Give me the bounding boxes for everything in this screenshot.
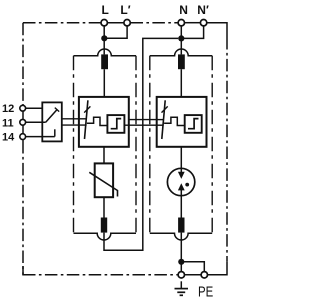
module 1 outline top with plug contact arc	[74, 49, 137, 56]
U1 disconnect electrode tick	[84, 106, 90, 112]
enclosure border bottom dash-dot	[23, 274, 178, 276]
GDT1 trigger dot	[185, 183, 189, 187]
svg-text:14: 14	[2, 132, 15, 144]
enclosure border left side solid at signal terminals	[22, 104, 24, 141]
module 2 outline bottom with plug contact arc	[150, 233, 212, 240]
wire U2 to gas discharge tube GDT1	[180, 147, 182, 172]
gas discharge tube GDT1 circle	[167, 168, 194, 195]
U2 disconnect electrode slant line	[162, 100, 165, 139]
remote signalling wire 14	[26, 136, 55, 138]
GDT1 upper arrow (down)	[178, 172, 185, 179]
ground symbol bar 1	[175, 288, 189, 290]
changeover switch K1 blade	[46, 110, 57, 123]
changeover switch K1 box	[42, 102, 62, 141]
wire between PE terminals	[185, 274, 202, 276]
GDT1 lower arrow shaft	[180, 190, 182, 196]
U1 trigger pulse waveform	[87, 117, 108, 125]
svg-text:11: 11	[2, 117, 14, 129]
wire L terminal down through top contact to disconnector	[103, 26, 105, 55]
svg-text:12: 12	[2, 103, 14, 115]
spark gap unit U1 box	[79, 97, 129, 147]
varistor RV1 diagonal stroke	[89, 172, 117, 196]
node N junction dot	[178, 35, 184, 41]
trigger rail lower between units	[124, 124, 156, 126]
module 2 outline top with plug contact arc	[150, 49, 212, 56]
wire node PE branch to PE' terminal	[181, 262, 204, 272]
terminal N	[178, 20, 184, 26]
module 1 outline bottom with plug contact arc	[74, 233, 137, 240]
wire fuse F1 to spark gap unit U1	[103, 69, 105, 97]
trigger rail lower from switch to unit U1	[62, 124, 87, 126]
enclosure border left side dash-dot	[22, 23, 24, 104]
wire N' loop-through to right border corner	[207, 23, 227, 37]
thermal disconnector fuse F2 (filled)	[178, 54, 185, 69]
svg-text:L′: L′	[120, 3, 130, 17]
wire varistor RV1 to fuse F3	[103, 197, 105, 217]
module 1 outline left dash-dot	[73, 56, 75, 233]
wire N module output through bottom contact to node PE	[180, 233, 182, 272]
enclosure border left side dash-dot lower	[22, 141, 24, 275]
wire right border bottom corner to PE' terminal	[208, 262, 228, 275]
thermal disconnector fuse F4 (filled)	[178, 218, 184, 233]
terminal 14	[20, 134, 26, 140]
wire GDT1 to fuse F4	[180, 196, 182, 218]
terminal 11	[20, 119, 26, 125]
GDT1 lower arrow (up)	[178, 183, 185, 190]
wire between L and L' terminals	[107, 22, 124, 24]
terminal N'	[200, 20, 206, 26]
changeover switch K1 blade tip tick	[55, 108, 59, 112]
trigger rail upper stub into unit U2	[157, 119, 164, 121]
terminal L	[101, 20, 107, 26]
spark gap unit U2 box	[157, 97, 207, 147]
terminal PE ground side	[178, 272, 184, 278]
wire U1 to varistor RV1	[103, 147, 105, 164]
changeover switch K1 fixed contact 14 stub	[54, 129, 56, 136]
ground symbol stem	[180, 281, 182, 288]
enclosure border right side dash-dot	[226, 37, 228, 262]
trigger rail upper between units	[129, 119, 157, 121]
wire N terminal down through top contact	[180, 26, 182, 55]
ground symbol bar 2	[177, 291, 185, 293]
U2 disconnect electrode tick	[162, 106, 168, 112]
svg-text:N: N	[179, 3, 188, 17]
enclosure border top dash-dot left segment	[23, 22, 101, 24]
module 1 outline right dash-dot	[135, 56, 137, 233]
wire N' branch down and left to node N	[181, 26, 203, 39]
thermal disconnector fuse F1 (filled)	[101, 54, 108, 69]
trigger rail lower stub into unit U2	[157, 124, 164, 126]
terminal PE'	[201, 272, 207, 278]
U1 spark gap element box	[107, 115, 124, 133]
node PE junction dot	[178, 259, 184, 265]
svg-text:PE: PE	[198, 283, 213, 300]
wire L' branch down and left to node L	[104, 26, 127, 38]
remote signalling wire 11	[26, 121, 46, 123]
trigger rail upper from switch to unit U1	[62, 118, 87, 120]
remote signalling wire 12	[26, 107, 42, 109]
enclosure border bottom-left corner solid elbow	[23, 266, 35, 275]
U1 disconnect electrode slant line	[85, 100, 88, 139]
terminal 12	[20, 105, 26, 111]
ground symbol bar 3	[180, 294, 183, 296]
terminal L'	[124, 20, 130, 26]
U2 spark gap element box	[185, 115, 202, 133]
wire fuse F2 to spark gap unit U2	[180, 69, 182, 97]
U2 trigger pulse waveform	[164, 117, 185, 125]
wire L module output through bottom contact riser to node N	[104, 38, 178, 250]
module 2 outline left dash-dot	[149, 56, 151, 233]
wire between N and N' terminals	[185, 22, 201, 24]
varistor RV1 body	[95, 163, 113, 197]
thermal disconnector fuse F3 (filled)	[101, 218, 107, 233]
enclosure border top dash-dot middle segment	[131, 22, 179, 24]
U2 spark gap step glyph	[188, 119, 199, 129]
svg-text:L: L	[102, 3, 109, 17]
node L junction dot	[101, 35, 107, 41]
svg-text:N′: N′	[197, 3, 209, 17]
U1 spark gap step glyph	[111, 119, 122, 129]
module 2 outline right dash-dot	[211, 56, 213, 233]
